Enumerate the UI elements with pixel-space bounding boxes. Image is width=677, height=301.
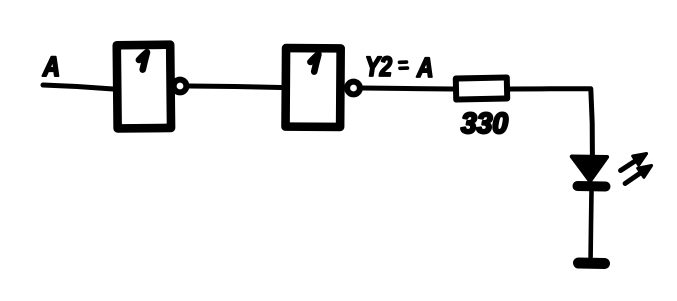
gate U2 output bubble <box>347 82 360 95</box>
resistor value 330 <box>461 113 508 134</box>
inverter gate U1 (box) <box>117 45 171 129</box>
wire U1 to U2 <box>189 86 281 88</box>
node Y2 = A label <box>367 56 392 76</box>
gate U1 label 1 <box>139 52 147 69</box>
wire resistor R1 to LED corner <box>510 89 592 156</box>
LED D1 triangle (anode) <box>572 157 607 182</box>
LED light arrow 1 <box>621 154 647 171</box>
wire input A to gate U1 <box>43 85 113 89</box>
inverter gate U2 (box) <box>286 48 341 127</box>
resistor R1 (box) <box>456 77 507 99</box>
gate U2 label 1 <box>310 54 318 71</box>
gate U1 output bubble <box>174 80 187 93</box>
wire LED to ground <box>588 191 594 257</box>
ground symbol <box>579 258 605 270</box>
wire U2 to resistor R1 <box>362 88 453 89</box>
node A label <box>43 57 59 76</box>
LED D1 cathode bar <box>578 181 606 192</box>
LED light arrow 2 <box>625 166 652 184</box>
